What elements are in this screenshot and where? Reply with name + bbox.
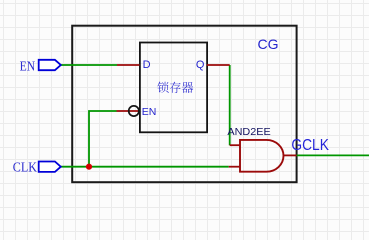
wire Q down to AND input	[229, 65, 231, 145]
pin D stub	[117, 64, 140, 66]
svg-text:D: D	[143, 59, 151, 71]
module boundary box CG	[72, 26, 296, 183]
wire EN port to D pin	[61, 64, 117, 66]
label 锁存器 (latch)	[157, 82, 193, 93]
AND input 2 stub	[229, 166, 240, 168]
input port CLK	[39, 162, 61, 172]
AND output stub	[283, 154, 297, 156]
svg-text:Q: Q	[196, 59, 205, 71]
latch U1 (锁存器)	[140, 43, 207, 133]
wire branch CLK up to latch EN bubble	[89, 111, 117, 167]
svg-text:CLK: CLK	[13, 160, 37, 175]
svg-text:GCLK: GCLK	[291, 137, 329, 154]
AND gate AND2EE	[240, 140, 284, 172]
wire CLK port to AND input	[61, 166, 229, 168]
svg-text:EN: EN	[20, 59, 36, 74]
AND input 1 stub	[230, 144, 240, 146]
pin Q stub	[207, 64, 230, 66]
pin EN inversion bubble	[129, 106, 139, 116]
svg-text:AND2EE: AND2EE	[227, 126, 270, 138]
svg-text:EN: EN	[142, 106, 157, 118]
junction dot on CLK net	[86, 164, 92, 170]
input port EN	[39, 60, 61, 70]
pin EN stub	[117, 110, 140, 112]
wire GCLK output	[297, 154, 369, 156]
svg-text:CG: CG	[258, 36, 279, 52]
